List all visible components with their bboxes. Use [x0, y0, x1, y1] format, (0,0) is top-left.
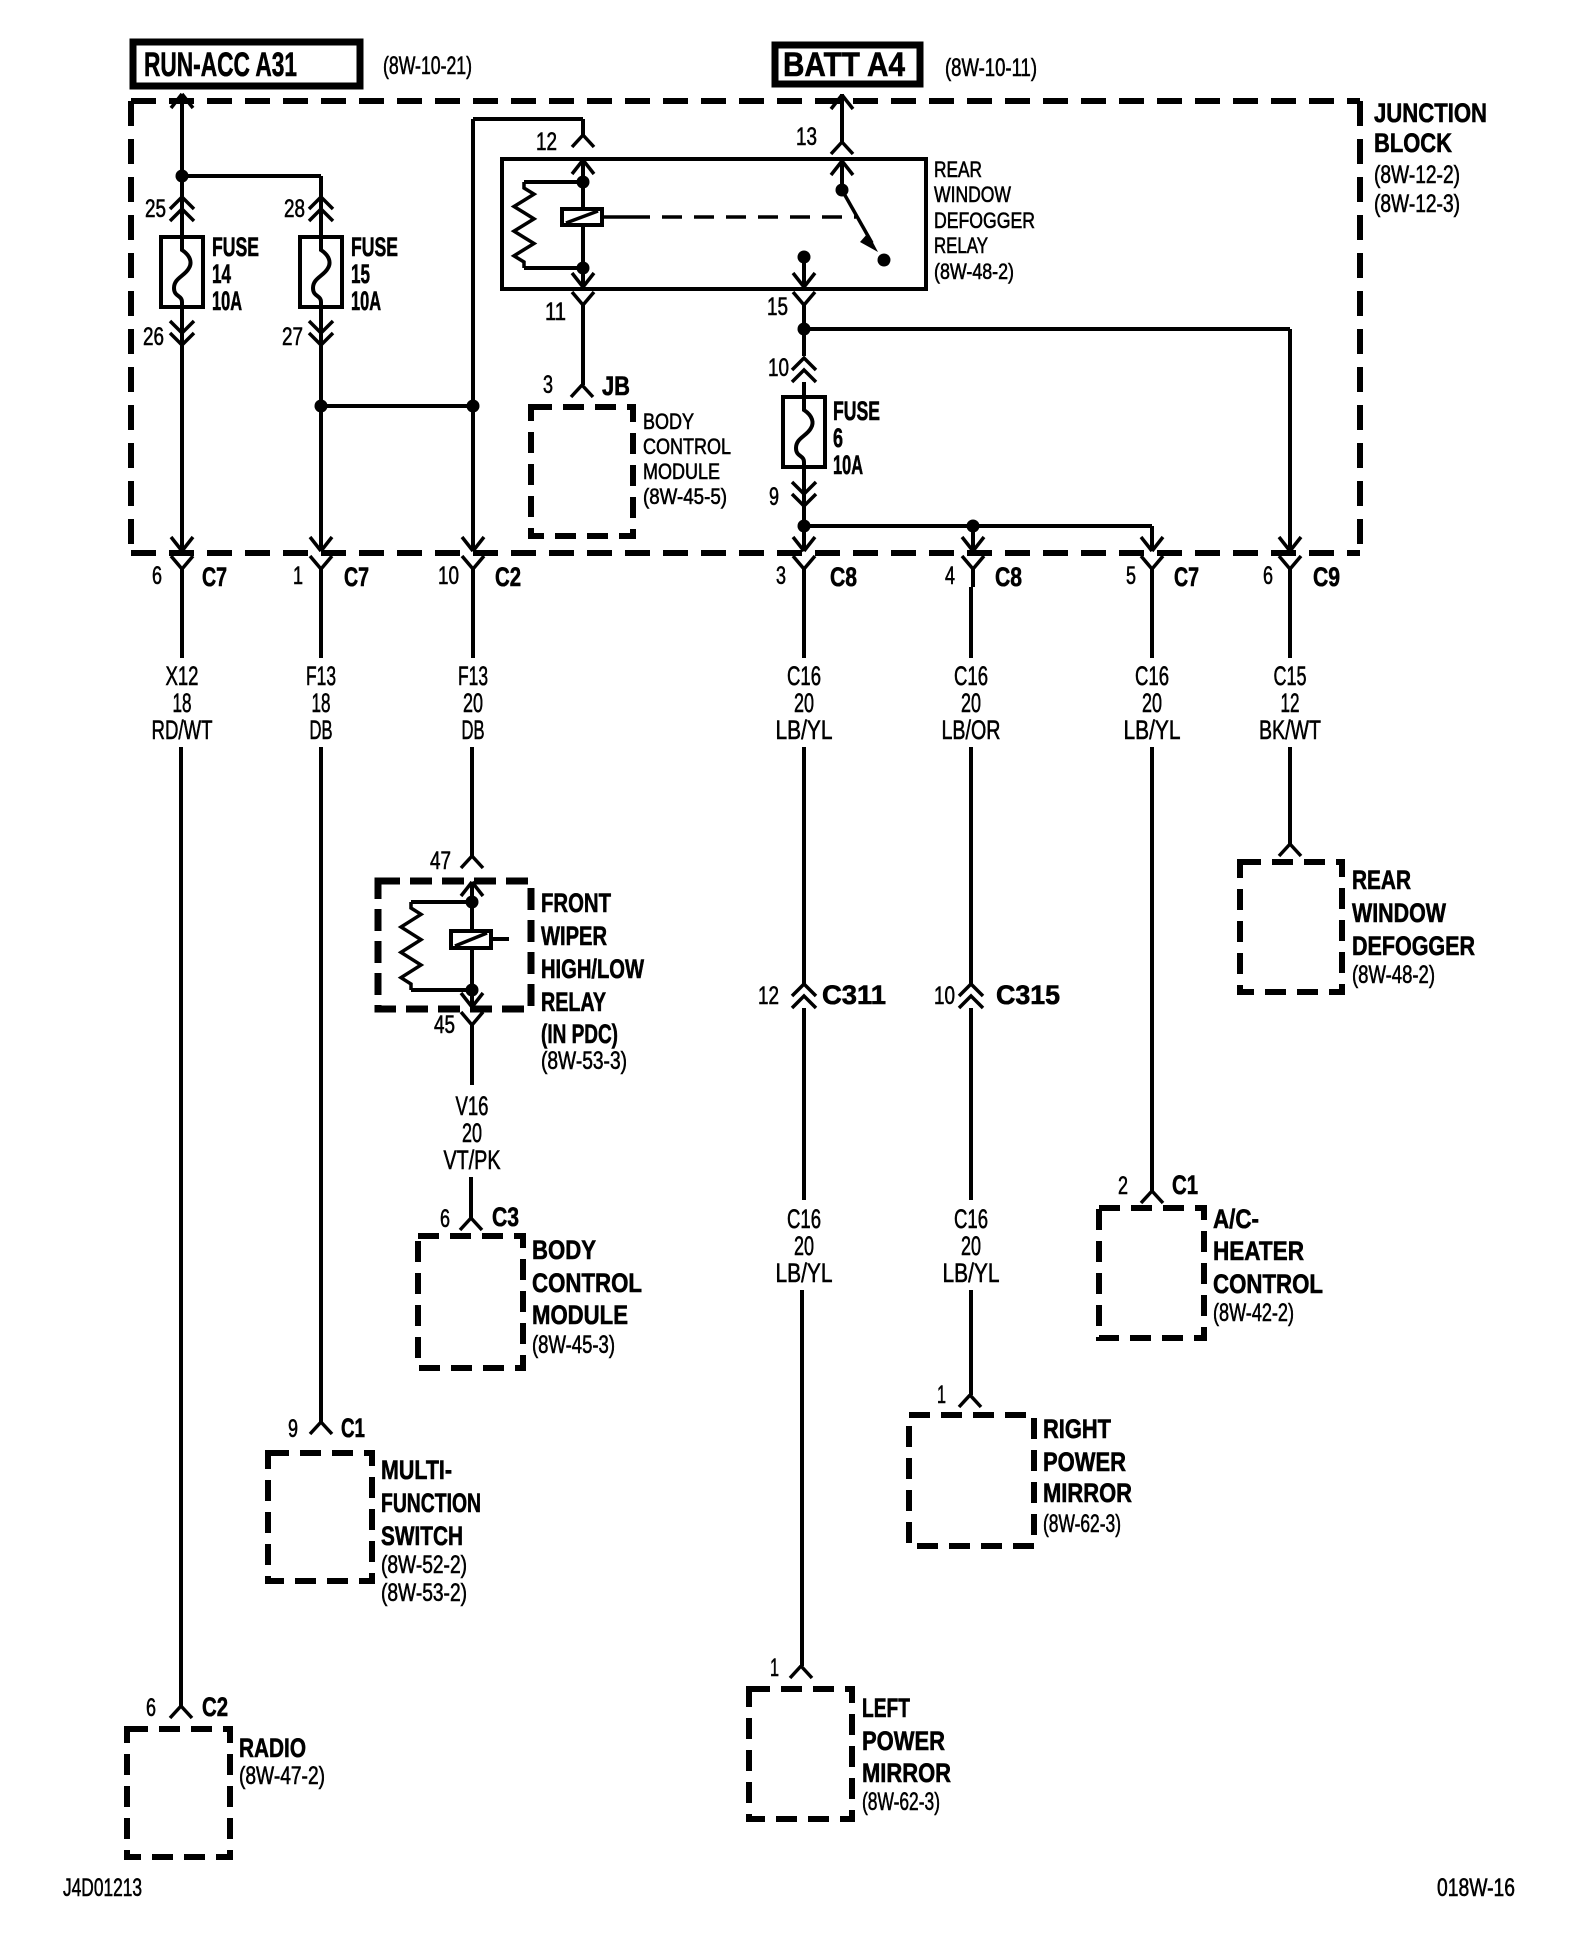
connector pin 13 at defogger relay [796, 123, 853, 154]
wire label X12 to RADIO connector [179, 747, 183, 1706]
pin 9 inline connector [769, 482, 816, 511]
svg-text:(8W-10-21): (8W-10-21) [383, 52, 472, 80]
switch blade with arrowhead [842, 190, 878, 252]
svg-text:12: 12 [536, 128, 557, 156]
module A/C-HEATER CONTROL [1099, 1204, 1323, 1338]
wire node to connector C7 pin 1 [319, 406, 323, 551]
svg-text:9: 9 [769, 483, 779, 511]
reference (8W-10-21) [383, 52, 472, 80]
wire C7 pin 6 to label X12 [180, 587, 184, 658]
svg-text:(8W-45-3): (8W-45-3) [532, 1331, 615, 1359]
svg-text:WINDOW: WINDOW [1352, 898, 1446, 928]
wire C315 to label C16 [969, 1008, 973, 1200]
svg-text:C16: C16 [954, 1204, 988, 1234]
fuse F14 10A [161, 232, 259, 316]
svg-text:DB: DB [310, 715, 333, 745]
node branch to C8 pin 4 [967, 520, 980, 552]
wire BK/WT to rear window defogger [1288, 747, 1292, 844]
pin 15 arrow out of relay [793, 257, 815, 287]
svg-text:J4D01213: J4D01213 [63, 1874, 142, 1902]
svg-text:FUSE: FUSE [351, 232, 398, 262]
svg-text:(8W-10-11): (8W-10-11) [945, 54, 1037, 82]
svg-text:1: 1 [770, 1654, 779, 1682]
fuse F6 10A [783, 396, 880, 480]
svg-text:(8W-12-3): (8W-12-3) [1374, 190, 1460, 218]
svg-text:POWER: POWER [1043, 1447, 1126, 1477]
connector pin 45 below relay [434, 1011, 483, 1045]
svg-text:C3: C3 [492, 1202, 519, 1232]
connector pin 1 at left power mirror [770, 1654, 812, 1682]
svg-text:JUNCTION: JUNCTION [1374, 98, 1487, 128]
svg-text:BK/WT: BK/WT [1259, 715, 1321, 745]
svg-text:CONTROL: CONTROL [1213, 1269, 1323, 1299]
svg-text:C16: C16 [1135, 661, 1169, 691]
wire pin 11 to BCM JB [581, 323, 585, 385]
svg-text:MULTI-: MULTI- [381, 1455, 452, 1485]
svg-text:(8W-47-2): (8W-47-2) [239, 1762, 325, 1790]
wire fuse 6 to pin 9 [802, 467, 806, 510]
svg-text:C2: C2 [495, 562, 521, 592]
svg-text:C16: C16 [787, 661, 821, 691]
wire label C16 20 LB/YL col7 [1124, 587, 1181, 745]
svg-text:(8W-48-2): (8W-48-2) [934, 259, 1014, 284]
wire node to connector C2 pin 10 [471, 406, 475, 551]
dashed actuation line [602, 215, 856, 219]
svg-text:HIGH/LOW: HIGH/LOW [541, 954, 644, 984]
svg-text:20: 20 [462, 1118, 482, 1148]
svg-text:20: 20 [794, 1231, 814, 1261]
coil defogger relay [562, 182, 602, 268]
svg-text:REAR: REAR [934, 157, 982, 182]
svg-text:DEFOGGER: DEFOGGER [1352, 931, 1475, 961]
svg-text:18: 18 [312, 688, 331, 718]
connector C7 pin 5 [1126, 537, 1199, 592]
svg-text:FUSE: FUSE [833, 396, 880, 426]
svg-text:C7: C7 [344, 562, 369, 592]
wire fuse 14 to pin 26 [180, 307, 184, 349]
svg-text:13: 13 [796, 123, 817, 151]
fuse F15 10A [300, 232, 398, 316]
module RADIO [127, 1729, 325, 1857]
pin 27 inline connector [282, 321, 333, 351]
wire split to fuse 15 [182, 176, 321, 237]
arrow into RUN-ACC A31 [171, 94, 193, 108]
junction block dashed border [131, 101, 1360, 553]
junction block label [1374, 98, 1487, 218]
wire BATT A4 to pin 13 [840, 94, 844, 142]
svg-text:20: 20 [794, 688, 814, 718]
svg-text:47: 47 [430, 847, 451, 875]
wire VT/PK label to BCM C3 [469, 1177, 473, 1218]
connector C2 pin 10 [438, 537, 521, 592]
svg-text:(8W-53-2): (8W-53-2) [381, 1579, 467, 1607]
svg-text:RIGHT: RIGHT [1043, 1414, 1111, 1444]
connector C7 pin 1 [293, 537, 369, 592]
svg-text:MIRROR: MIRROR [1043, 1478, 1132, 1508]
connector C311 pin 12 inline [758, 980, 886, 1010]
svg-text:6: 6 [146, 1694, 156, 1722]
svg-text:C1: C1 [341, 1413, 365, 1443]
svg-text:3: 3 [776, 562, 786, 590]
wire label C16 20 LB/YL col3 [776, 587, 833, 745]
wire label C16 20 LB/YL lower [776, 1204, 833, 1288]
connector pin 47 at wiper relay [430, 847, 483, 875]
connector C9 pin 6 [1263, 537, 1340, 592]
svg-text:C315: C315 [996, 980, 1060, 1010]
wire label C15 12 BK/WT [1259, 587, 1321, 745]
module RIGHT POWER MIRROR [909, 1414, 1132, 1546]
wire label DB to multi-function switch [319, 747, 323, 1422]
svg-text:WIPER: WIPER [541, 921, 607, 951]
wire label C16 20 LB/OR [942, 587, 1001, 745]
svg-text:C1: C1 [1172, 1170, 1198, 1200]
svg-text:10A: 10A [833, 450, 863, 480]
svg-text:(8W-12-2): (8W-12-2) [1374, 161, 1460, 189]
svg-text:BATT A4: BATT A4 [783, 46, 905, 84]
pin 26 inline connector [143, 321, 194, 351]
svg-text:15: 15 [767, 293, 788, 321]
svg-text:10A: 10A [212, 286, 242, 316]
wire label F13 20 DB [458, 587, 488, 745]
svg-text:6: 6 [152, 562, 162, 590]
relay FRONT WIPER HIGH/LOW dashed box [378, 881, 531, 1009]
wire to rear defogger C9 [804, 329, 1290, 551]
connector C8 pin 3 [776, 537, 857, 592]
power feed box RUN-ACC A31 [133, 42, 360, 86]
svg-text:SWITCH: SWITCH [381, 1521, 463, 1551]
footer code 018W-16 [1437, 1874, 1515, 1902]
wire RUN-ACC A31 to junction dot [180, 94, 184, 176]
svg-text:28: 28 [284, 195, 305, 223]
svg-text:RUN-ACC A31: RUN-ACC A31 [144, 46, 297, 84]
relay REAR WINDOW DEFOGGER box [502, 159, 926, 289]
wire relay branch loop [473, 119, 583, 406]
svg-text:V16: V16 [456, 1091, 489, 1121]
svg-text:6: 6 [1263, 562, 1273, 590]
node fuse15 output split [315, 400, 328, 413]
resistor defogger relay [514, 182, 583, 268]
svg-text:018W-16: 018W-16 [1437, 1874, 1515, 1902]
wire junction dot to pin 25 [180, 176, 184, 237]
node junction dot at fuse feed split [176, 170, 189, 183]
svg-text:3: 3 [543, 371, 553, 399]
connector C7 pin 6 [152, 537, 227, 592]
wire fused output to C8 pin 4 and C7 pin 5 [804, 526, 1152, 551]
connector C2 pin 6 at radio [146, 1692, 228, 1722]
module MULTI-FUNCTION SWITCH [268, 1453, 481, 1607]
svg-text:WINDOW: WINDOW [934, 182, 1011, 207]
svg-text:6: 6 [833, 423, 843, 453]
svg-text:CONTROL: CONTROL [643, 434, 731, 459]
svg-text:LB/YL: LB/YL [776, 1258, 833, 1288]
svg-text:LB/OR: LB/OR [942, 715, 1001, 745]
wire DB label to front wiper relay [470, 747, 474, 856]
svg-text:1: 1 [937, 1381, 946, 1409]
wire label to left power mirror [800, 1290, 804, 1666]
svg-text:(8W-62-3): (8W-62-3) [862, 1788, 940, 1816]
wire label to right power mirror [969, 1290, 973, 1395]
svg-text:C15: C15 [1274, 661, 1307, 691]
svg-text:CONTROL: CONTROL [532, 1268, 642, 1298]
svg-text:LB/YL: LB/YL [1124, 715, 1181, 745]
footer code J4D01213 [63, 1874, 142, 1902]
svg-text:FUSE: FUSE [212, 232, 259, 262]
svg-text:27: 27 [282, 323, 303, 351]
coil wiper relay [451, 902, 509, 990]
module LEFT POWER MIRROR [749, 1689, 951, 1819]
svg-text:9: 9 [288, 1415, 298, 1443]
module BODY CONTROL MODULE (8W-45-3) [418, 1235, 642, 1368]
svg-text:RADIO: RADIO [239, 1733, 306, 1763]
svg-text:C8: C8 [995, 562, 1022, 592]
svg-text:C7: C7 [1174, 562, 1199, 592]
wire relay 45 to label V16 [470, 1045, 474, 1085]
pin 28 inline connector [284, 195, 333, 223]
svg-text:C2: C2 [202, 1692, 228, 1722]
node fused output split [798, 510, 811, 551]
svg-text:BODY: BODY [643, 409, 694, 434]
svg-text:A/C-: A/C- [1213, 1204, 1259, 1234]
wire pin 10 to fuse 6 [802, 382, 806, 397]
svg-text:F13: F13 [458, 661, 488, 691]
svg-text:DB: DB [462, 715, 485, 745]
wire LB/YL to A/C heater control [1150, 747, 1154, 1191]
svg-text:REAR: REAR [1352, 865, 1411, 895]
connector pin 15 below relay [767, 292, 815, 323]
svg-text:C9: C9 [1313, 562, 1340, 592]
svg-text:6: 6 [440, 1205, 450, 1233]
connector C3 pin 6 at BCM [440, 1202, 519, 1233]
svg-text:RD/WT: RD/WT [152, 715, 213, 745]
svg-text:10A: 10A [351, 286, 381, 316]
wire LB/OR to C315 [969, 747, 973, 984]
power feed box BATT A4 [775, 45, 920, 84]
svg-text:1: 1 [293, 562, 303, 590]
svg-text:HEATER: HEATER [1213, 1236, 1304, 1266]
svg-text:26: 26 [143, 323, 164, 351]
arrow pin 12 into relay [572, 160, 594, 182]
svg-text:10: 10 [768, 354, 789, 382]
pin 10 inline connector [768, 354, 816, 382]
connector pin 11 below relay [545, 292, 594, 326]
wire label C16 20 LB/YL col6 [943, 1204, 1000, 1288]
wire fuse 15 to pin 27 [319, 307, 323, 349]
pin 11 arrow out of relay [572, 268, 594, 287]
svg-text:11: 11 [545, 298, 566, 326]
svg-text:RELAY: RELAY [541, 987, 606, 1017]
arrow pin 47 into relay [461, 882, 483, 902]
connector C1 pin 9 at multi-function switch [288, 1413, 365, 1443]
svg-text:12: 12 [1281, 688, 1300, 718]
svg-text:15: 15 [351, 259, 370, 289]
svg-text:BLOCK: BLOCK [1374, 128, 1452, 158]
svg-text:MODULE: MODULE [643, 459, 720, 484]
svg-text:10: 10 [934, 982, 955, 1010]
connector at rear window defogger [1279, 844, 1301, 856]
svg-text:4: 4 [945, 562, 955, 590]
wire pin 27 to node [319, 349, 323, 406]
svg-text:20: 20 [961, 1231, 981, 1261]
pin 25 inline connector [145, 195, 194, 223]
connector JB pin 3 at BCM [543, 371, 630, 401]
svg-text:POWER: POWER [862, 1726, 945, 1756]
svg-text:(IN PDC): (IN PDC) [541, 1019, 618, 1049]
svg-text:FRONT: FRONT [541, 888, 611, 918]
module BODY CONTROL MODULE (8W-45-5) [531, 407, 731, 536]
svg-text:FUNCTION: FUNCTION [381, 1488, 481, 1518]
svg-text:C7: C7 [202, 562, 227, 592]
node defogger coil top [577, 176, 590, 189]
svg-text:(8W-45-5): (8W-45-5) [643, 484, 727, 509]
wire C311 to label C16 [802, 1008, 806, 1200]
svg-text:C8: C8 [830, 562, 857, 592]
svg-text:10: 10 [438, 562, 459, 590]
svg-text:C311: C311 [822, 980, 886, 1010]
svg-text:20: 20 [1142, 688, 1162, 718]
node defogger feed split [798, 323, 811, 357]
wire label V16 20 VT/PK [444, 1091, 501, 1175]
resistor wiper relay [401, 902, 472, 990]
node wiper relay coil top [466, 896, 479, 909]
connector pin 12 at defogger relay [536, 119, 594, 156]
pin 45 arrow out of relay [461, 990, 483, 1007]
svg-text:18: 18 [173, 688, 192, 718]
svg-text:14: 14 [212, 259, 231, 289]
svg-text:DEFOGGER: DEFOGGER [934, 208, 1035, 233]
svg-text:20: 20 [463, 688, 483, 718]
svg-text:12: 12 [758, 982, 779, 1010]
reference (8W-10-11) [945, 54, 1037, 82]
svg-text:25: 25 [145, 195, 166, 223]
svg-text:(8W-48-2): (8W-48-2) [1352, 961, 1435, 989]
svg-text:(8W-62-3): (8W-62-3) [1043, 1510, 1121, 1538]
svg-text:(8W-42-2): (8W-42-2) [1213, 1299, 1294, 1327]
svg-text:F13: F13 [306, 661, 336, 691]
node wiper relay coil bottom [466, 984, 479, 997]
label FRONT WIPER HIGH/LOW RELAY (IN PDC) [541, 888, 644, 1075]
connector pin 1 at right power mirror [937, 1381, 981, 1409]
wire label F13 18 DB [306, 587, 336, 745]
connector C315 pin 10 inline [934, 980, 1060, 1010]
svg-text:MIRROR: MIRROR [862, 1758, 951, 1788]
svg-text:LB/YL: LB/YL [776, 715, 833, 745]
svg-text:C16: C16 [954, 661, 988, 691]
svg-text:RELAY: RELAY [934, 233, 988, 258]
svg-text:20: 20 [961, 688, 981, 718]
svg-text:(8W-52-2): (8W-52-2) [381, 1551, 467, 1579]
svg-text:5: 5 [1126, 562, 1136, 590]
switch common node [836, 184, 849, 197]
svg-text:45: 45 [434, 1011, 455, 1039]
svg-text:VT/PK: VT/PK [444, 1145, 501, 1175]
switch contact node [878, 254, 891, 267]
svg-text:LEFT: LEFT [862, 1693, 910, 1723]
svg-text:LB/YL: LB/YL [943, 1258, 1000, 1288]
connector C1 pin 2 at A/C heater control [1118, 1170, 1198, 1203]
arrow into BATT A4 [831, 95, 853, 109]
label REAR WINDOW DEFOGGER RELAY (8W-48-2) [934, 157, 1035, 284]
arrow pin 13 into relay [831, 161, 853, 190]
node pin 15 contact [798, 251, 811, 264]
svg-text:BODY: BODY [532, 1235, 596, 1265]
wire pin 26 to connector C7 pin 6 [180, 349, 184, 551]
node defogger coil bottom [577, 262, 590, 275]
module REAR WINDOW DEFOGGER [1240, 862, 1475, 992]
svg-text:X12: X12 [166, 661, 199, 691]
svg-text:C16: C16 [787, 1204, 821, 1234]
node fuse15 to C2 junction [321, 400, 480, 413]
wire label X12 18 RD/WT [152, 661, 213, 745]
svg-text:(8W-53-3): (8W-53-3) [541, 1047, 627, 1075]
svg-text:2: 2 [1118, 1172, 1128, 1200]
wire LB/YL to C311 [802, 747, 806, 984]
connector C8 pin 4 [945, 537, 1022, 592]
svg-text:MODULE: MODULE [532, 1300, 628, 1330]
svg-text:JB: JB [602, 371, 630, 401]
